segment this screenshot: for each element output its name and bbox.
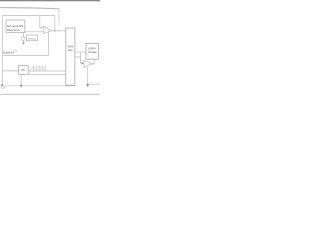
wire clock to PWM logic	[28, 74, 66, 76]
wire ramp to PWM logic	[28, 70, 66, 72]
wire VDD drop	[58, 9, 60, 19]
node junction A	[54, 30, 56, 32]
svg-text:(2): (2)	[15, 50, 18, 52]
wire reference to comparator minus input	[25, 31, 44, 33]
wire plus input from SS node	[40, 16, 43, 28]
wire VDD rail to PWM logic	[0, 8, 59, 9]
wire feedback vertical	[54, 16, 56, 31]
page rule bottom	[0, 93, 100, 95]
wire bottom right rail	[88, 83, 100, 85]
block OSC	[19, 65, 29, 74]
ground symbol	[86, 84, 89, 87]
block PWM logic	[66, 28, 75, 85]
block GDRV tristate	[86, 44, 99, 60]
svg-text:Reference: Reference	[7, 28, 20, 32]
wire comparator output	[51, 30, 65, 32]
current source I1	[22, 32, 26, 44]
svg-text:logic: logic	[68, 49, 74, 52]
block threshold 700 mV	[26, 35, 37, 41]
wire inverter out to gdrv	[93, 59, 94, 64]
block U1 EA and SS Reference	[6, 20, 25, 32]
wire stub to threshold block	[25, 37, 26, 39]
wire pwm to gdrv	[75, 51, 86, 53]
wire inverter ground branch	[87, 67, 89, 84]
svg-text:tristate: tristate	[88, 51, 98, 54]
svg-text:Enable/EA: Enable/EA	[3, 51, 15, 55]
wire osc input	[3, 70, 19, 72]
pin SS terminal	[1, 85, 4, 88]
wire osc disable drop with arrowhead	[20, 75, 22, 88]
op-amp U2 comparator	[42, 26, 51, 33]
wire SS node top	[3, 15, 55, 17]
cropped text band at page top	[0, 0, 100, 2]
inverter U3	[84, 60, 93, 67]
wire SS node left rail	[2, 16, 4, 86]
svg-text:700 mV: 700 mV	[28, 38, 37, 40]
wire pwm to inverter	[75, 52, 84, 63]
wire bottom rail	[3, 85, 75, 87]
wire enable to comparator	[3, 32, 49, 55]
sawtooth waveform symbol	[31, 66, 46, 71]
label Enable/EA	[3, 50, 17, 54]
svg-text:OSC: OSC	[21, 70, 26, 72]
arrowhead into inverter	[82, 62, 84, 64]
